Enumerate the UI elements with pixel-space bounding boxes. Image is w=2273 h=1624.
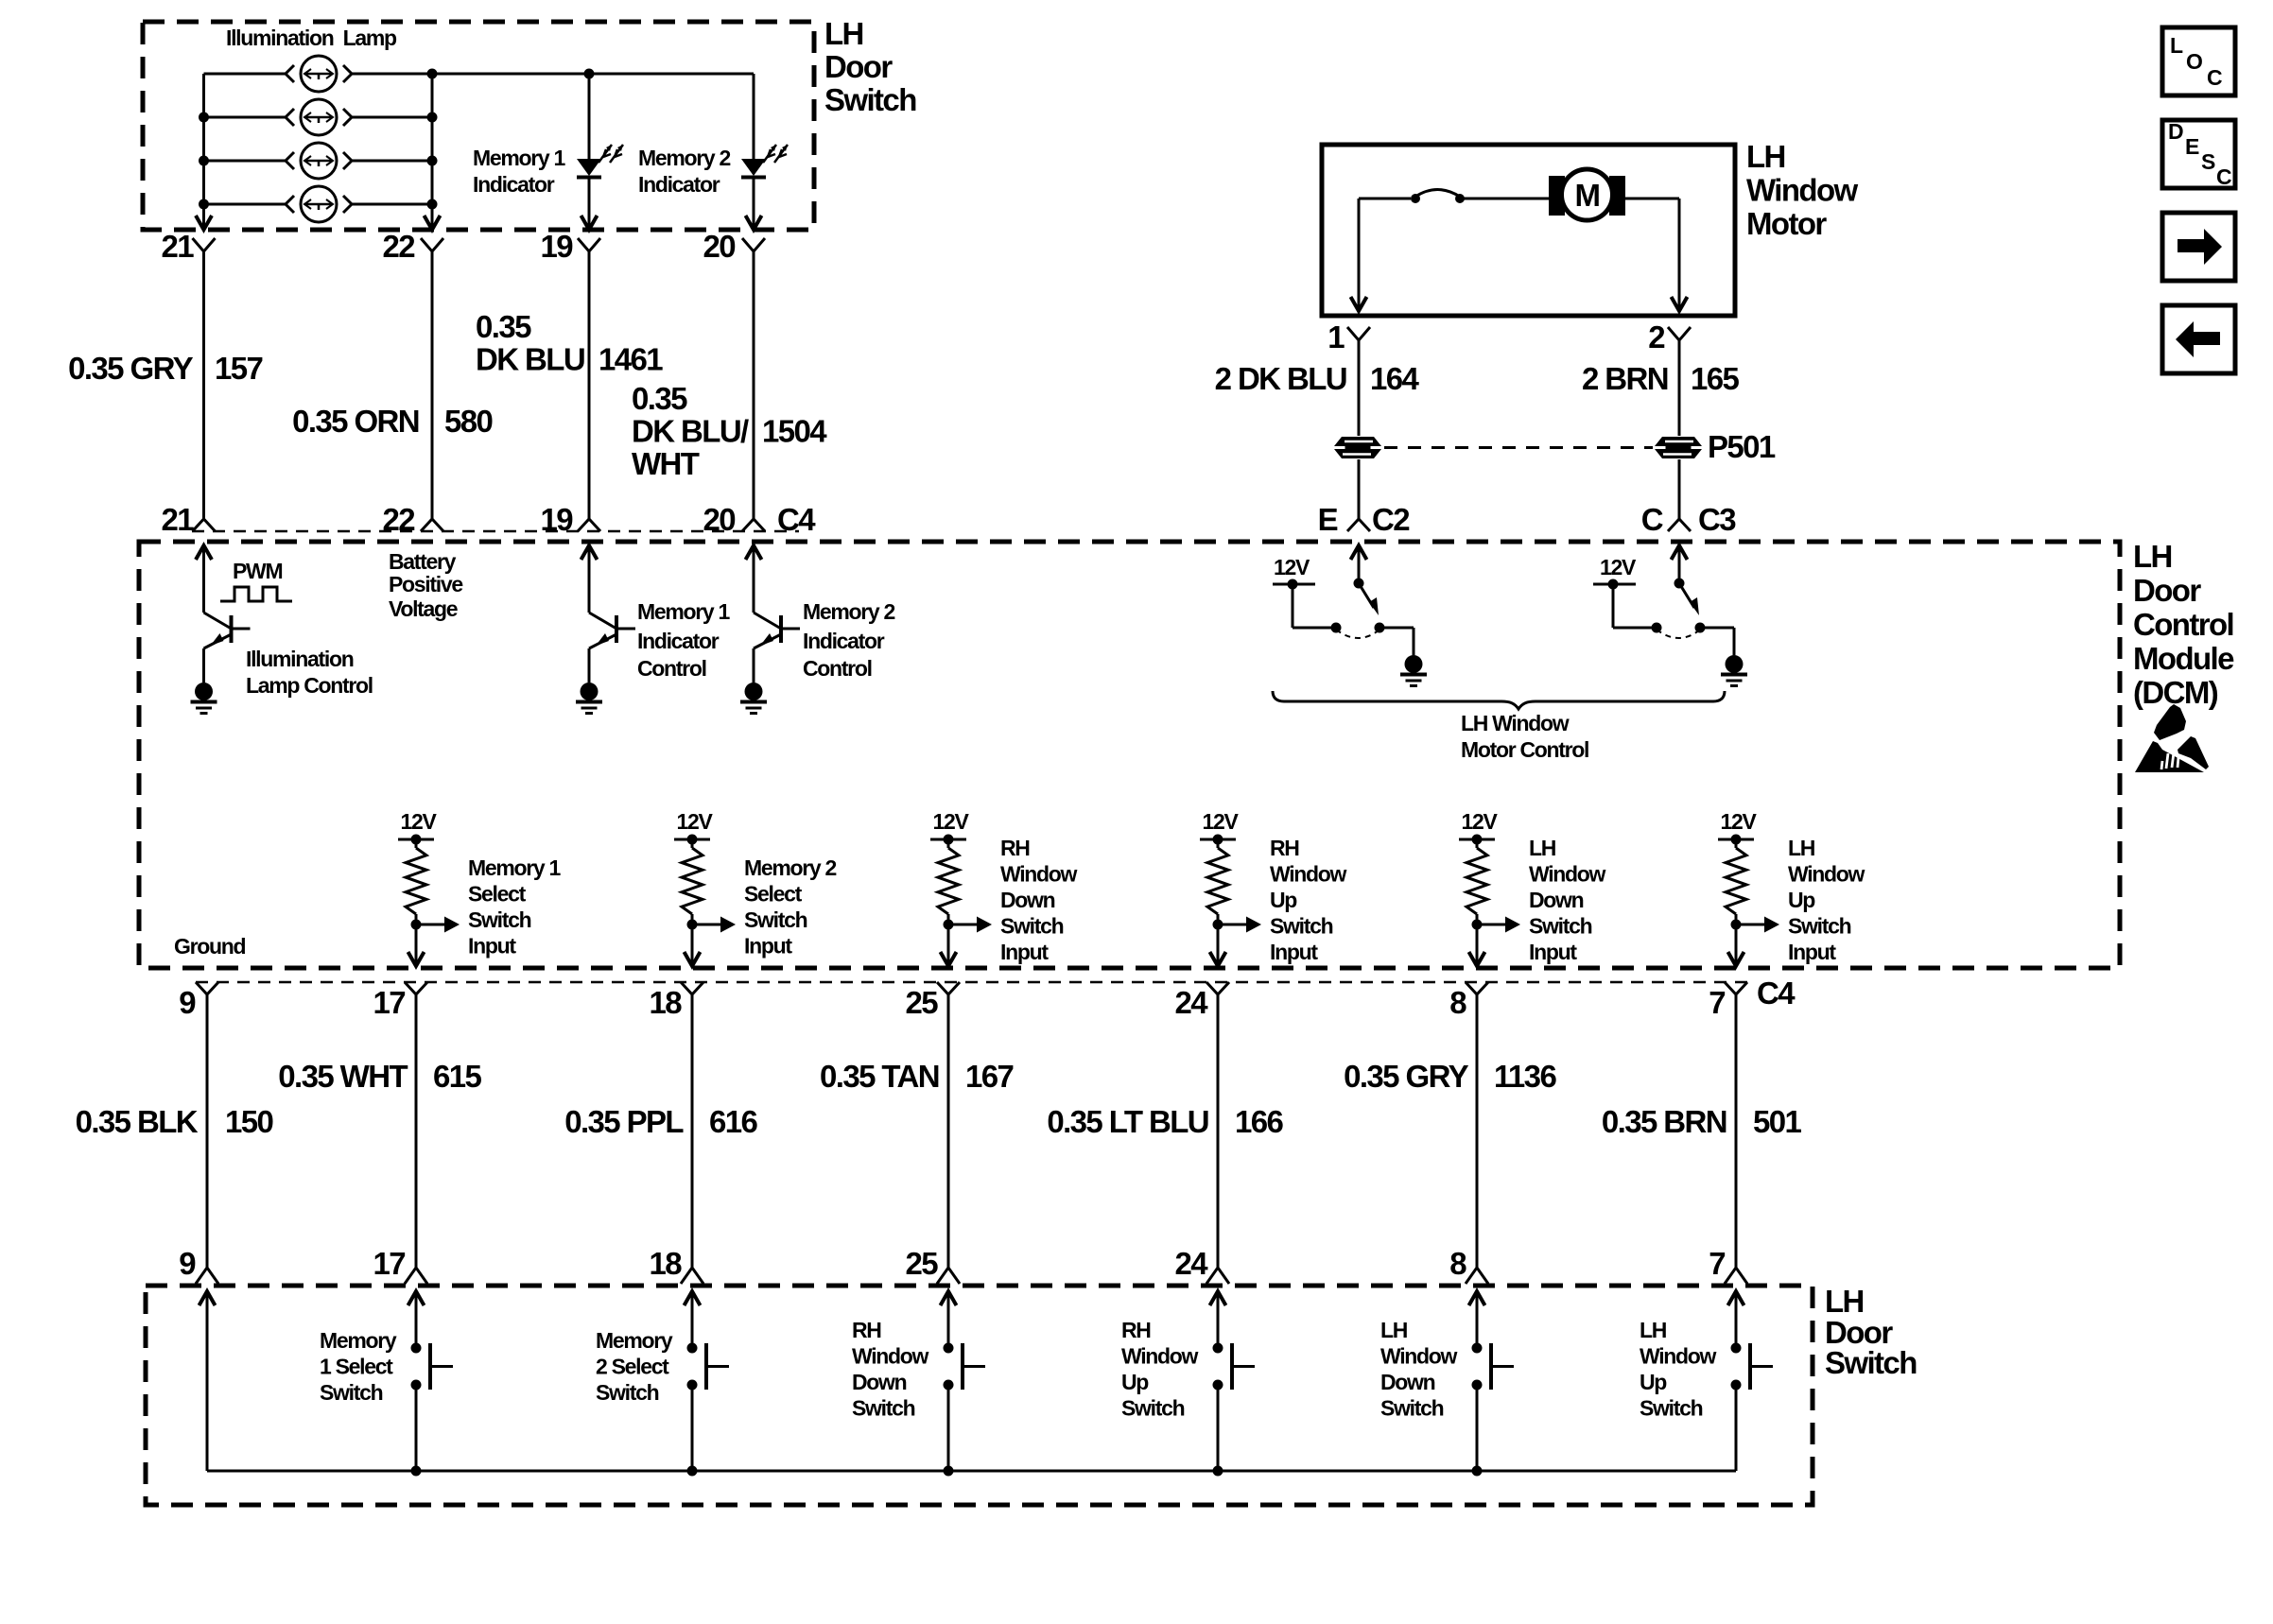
LH Window Motor Control label (1461, 711, 1588, 762)
svg-text:RH: RH (1121, 1318, 1151, 1342)
wire: circuit 167 (0.35 TAN) (947, 994, 950, 1268)
wire label 2 BRN 165 (1582, 361, 1740, 396)
svg-text:C2: C2 (1372, 502, 1410, 537)
svg-text:Positive: Positive (389, 572, 462, 596)
svg-text:7: 7 (1709, 1246, 1725, 1281)
svg-text:Switch: Switch (1380, 1396, 1444, 1421)
resistor: Memory 1 Select Switch Input pull-up (406, 839, 426, 924)
wire: LH Window Down Switch Input to pin (1469, 924, 1485, 966)
P501 label (1708, 429, 1776, 464)
resistor: LH Window Down Switch Input pull-up (1466, 839, 1487, 924)
svg-text:17: 17 (373, 985, 405, 1020)
Memory 2 Select Switch Input label (744, 855, 836, 959)
svg-text:0.35: 0.35 (476, 309, 531, 344)
wire label 0.35 ORN 580 (292, 404, 492, 439)
pin 22 (DCM C4) (382, 502, 443, 537)
svg-text:Window: Window (1788, 862, 1865, 887)
svg-text:12V: 12V (932, 809, 969, 834)
svg-text:Select: Select (744, 882, 803, 907)
svg-text:20: 20 (703, 502, 735, 537)
svg-text:165: 165 (1691, 361, 1740, 396)
Illumination Lamp Control label (246, 647, 373, 698)
svg-text:RH: RH (1270, 836, 1299, 860)
LH Door Switch (lower) enclosure box (146, 1286, 1813, 1505)
svg-text:C: C (2207, 65, 2222, 90)
svg-text:1504: 1504 (762, 414, 827, 449)
svg-text:Input: Input (1000, 940, 1049, 964)
wire: circuit 164 lower (1358, 459, 1361, 519)
forward arrow icon button (2162, 213, 2235, 281)
Memory 1 Select Switch label (320, 1328, 397, 1405)
pin 24 (DCM C4 bottom) (1174, 982, 1229, 1020)
svg-text:Switch: Switch (468, 907, 531, 932)
svg-text:Memory 2: Memory 2 (638, 146, 730, 170)
svg-text:Input: Input (1529, 940, 1577, 964)
wire: circuit 501 (0.35 BRN) (1735, 994, 1738, 1268)
svg-text:Memory: Memory (320, 1328, 397, 1353)
wire: circuit 165 lower (1678, 459, 1681, 519)
switch: RH Window Up Switch (momentary) (1210, 1291, 1256, 1471)
svg-text:Memory 1: Memory 1 (468, 855, 561, 880)
Memory 2 Indicator Control label (803, 599, 894, 681)
svg-text:12V: 12V (1600, 555, 1637, 579)
pin 17 (DCM C4 bottom) (373, 982, 427, 1020)
LH Door Switch (upper) enclosure box (143, 22, 814, 230)
svg-text:0.35: 0.35 (632, 381, 687, 416)
svg-text:Up: Up (1788, 888, 1815, 912)
wire: circuit 1504 (0.35 DK BLU/WHT) (753, 251, 755, 519)
svg-text:LH: LH (1825, 1284, 1864, 1319)
wire label 0.35 PPL 616 (564, 1104, 757, 1139)
wire: circuit 164 (2 DK BLU) upper (1358, 340, 1361, 436)
pin 7 (door switch lower) (1709, 1246, 1747, 1284)
svg-text:Down: Down (852, 1370, 907, 1394)
LH Door Control Module (DCM) enclosure box (139, 542, 2120, 968)
wire: LH Window Up Switch Input to pin (1728, 924, 1744, 966)
12V label (RH Window Down Switch Input) (932, 809, 969, 834)
pin 24 (door switch lower) (1174, 1246, 1229, 1284)
pin 2 (window motor) (1648, 320, 1691, 354)
svg-text:8: 8 (1449, 985, 1466, 1020)
LH Window Up Switch label (1640, 1318, 1717, 1421)
svg-text:Input: Input (744, 934, 792, 959)
svg-text:Window: Window (1121, 1344, 1199, 1369)
svg-text:(DCM): (DCM) (2133, 675, 2218, 710)
transistor Q1: Illumination Lamp Control driver (191, 545, 251, 714)
PWM label and waveform (220, 559, 292, 601)
wire: circuit 165 (2 BRN) upper (1678, 340, 1681, 436)
svg-text:9: 9 (179, 985, 196, 1020)
pin 9 (door switch lower) (179, 1246, 218, 1284)
svg-text:22: 22 (382, 229, 415, 264)
pin 18 (DCM C4 bottom) (649, 982, 703, 1020)
svg-text:12V: 12V (1274, 555, 1310, 579)
pin 19 (door switch) (540, 229, 600, 264)
pin 8 (door switch lower) (1449, 1246, 1488, 1284)
svg-text:Switch: Switch (1529, 914, 1592, 939)
wire: circuit 580 (0.35 ORN) (431, 251, 434, 519)
svg-text:Input: Input (468, 934, 516, 959)
svg-text:Motor Control: Motor Control (1461, 737, 1588, 762)
LED: Memory 1 Indicator (pin 19 column) (577, 74, 623, 230)
wire label 0.35 GRY 157 (68, 351, 262, 386)
svg-text:LH: LH (1746, 139, 1785, 174)
LH Door Switch (upper) box label (824, 16, 916, 117)
svg-text:S: S (2201, 149, 2215, 174)
svg-text:166: 166 (1235, 1104, 1284, 1139)
pin 25 (DCM C4 bottom) (905, 982, 960, 1020)
svg-text:2: 2 (1648, 320, 1665, 354)
svg-text:Switch: Switch (1121, 1396, 1185, 1421)
wire: lamp return rail (pin 22 column) (425, 74, 441, 230)
ESD sensitive device symbol (2135, 704, 2209, 772)
svg-text:Up: Up (1270, 888, 1297, 912)
svg-text:E: E (2185, 134, 2199, 159)
svg-text:DK BLU: DK BLU (476, 342, 584, 377)
12V label (C3 driver) (1600, 555, 1637, 579)
LH Door Switch (lower) box label (1825, 1284, 1917, 1380)
wire: ground return (pin 9) inside switch (200, 1291, 216, 1471)
RH Window Up Switch Input label (1270, 836, 1347, 964)
DESC icon button (2162, 119, 2235, 189)
node / sense tap (LH Window Up Switch Input) (1731, 917, 1780, 933)
svg-text:Illumination Lamp: Illumination Lamp (226, 26, 397, 50)
node / sense tap (RH Window Up Switch Input) (1213, 917, 1262, 933)
wire: breaker to motor (1464, 198, 1551, 200)
svg-text:0.35 LT BLU: 0.35 LT BLU (1047, 1104, 1208, 1139)
pin 22 (door switch) (382, 229, 443, 264)
svg-text:24: 24 (1174, 985, 1208, 1020)
resistor: RH Window Down Switch Input pull-up (938, 839, 959, 924)
svg-text:O: O (2186, 49, 2202, 74)
svg-text:Switch: Switch (320, 1380, 383, 1405)
12V label (Memory 2 Select Switch Input) (676, 809, 713, 834)
switch: Memory 2 Select Switch (momentary) (685, 1291, 730, 1471)
Ground label (174, 934, 245, 959)
svg-text:0.35 BLK: 0.35 BLK (76, 1104, 199, 1139)
pin 25 (door switch lower) (905, 1246, 960, 1284)
svg-text:Memory 2: Memory 2 (803, 599, 894, 624)
wire label 0.35 BLK 150 (76, 1104, 273, 1139)
connector C4 dashed pin line (bottom) (196, 981, 1747, 984)
svg-text:P501: P501 (1708, 429, 1776, 464)
LH Window Motor label (1746, 139, 1858, 241)
wire: circuit 616 (0.35 PPL) (691, 994, 694, 1268)
wire label 0.35 TAN 167 (820, 1059, 1013, 1094)
Memory 2 Select Switch label (596, 1328, 673, 1405)
svg-text:21: 21 (161, 502, 194, 537)
RH Window Down Switch Input label (1000, 836, 1078, 964)
wire: lamp 4 branch (204, 203, 433, 206)
svg-text:Indicator: Indicator (638, 172, 720, 197)
svg-text:L: L (2170, 33, 2183, 58)
Memory 2 Indicator label (638, 146, 730, 197)
LH Window Down Switch Input label (1529, 836, 1606, 964)
svg-text:M: M (1575, 178, 1600, 213)
svg-text:Ground: Ground (174, 934, 245, 959)
svg-text:Up: Up (1121, 1370, 1149, 1394)
wire: circuit 157 (0.35 GRY) (202, 251, 205, 519)
in-line connector P501 right half (1655, 437, 1702, 458)
switch: LH window motor driver (C3 side) (1593, 545, 1747, 686)
svg-text:Switch: Switch (744, 907, 807, 932)
wire: lamp 2 branch (204, 116, 433, 119)
svg-text:Window: Window (852, 1344, 929, 1369)
svg-text:0.35 GRY: 0.35 GRY (68, 351, 193, 386)
wire: RH Window Down Switch Input to pin (941, 924, 957, 966)
svg-text:Indicator: Indicator (637, 629, 720, 653)
wire: top feed to memory indicator LEDs (427, 69, 755, 79)
resistor: LH Window Up Switch Input pull-up (1726, 839, 1746, 924)
svg-text:Switch: Switch (1788, 914, 1851, 939)
svg-text:LH: LH (2133, 539, 2172, 574)
Illumination Lamp label (226, 26, 397, 50)
node / sense tap (RH Window Down Switch Input) (944, 917, 993, 933)
Memory 1 Indicator label (473, 146, 565, 197)
transistor Q3: Memory 2 Indicator Control driver (740, 545, 800, 714)
svg-text:150: 150 (225, 1104, 273, 1139)
svg-text:2 DK BLU: 2 DK BLU (1215, 361, 1346, 396)
svg-text:LH: LH (1380, 1318, 1408, 1342)
svg-text:D: D (2168, 119, 2183, 144)
svg-text:C3: C3 (1698, 502, 1736, 537)
svg-text:Illumination: Illumination (246, 647, 354, 671)
12V rail node (Memory 2 Select Switch Input) (674, 835, 710, 845)
svg-text:12V: 12V (1720, 809, 1757, 834)
wire label 0.35 WHT 615 (278, 1059, 481, 1094)
svg-text:Memory 2: Memory 2 (744, 855, 836, 880)
wire label 0.35 DK BLU/WHT 1504 (632, 381, 827, 481)
wire: Memory 2 Select Switch Input to pin (685, 924, 701, 966)
LH Window Up Switch Input label (1788, 836, 1865, 964)
wire: lamp 1 branch (204, 73, 433, 76)
svg-text:167: 167 (965, 1059, 1014, 1094)
svg-text:164: 164 (1370, 361, 1420, 396)
svg-text:9: 9 (179, 1246, 196, 1281)
wire: lamp feed rail (pin 21 column) (196, 74, 212, 230)
svg-text:1 Select: 1 Select (320, 1355, 393, 1379)
pin 17 (door switch lower) (373, 1246, 427, 1284)
switch: RH Window Down Switch (momentary) (941, 1291, 986, 1471)
P501 dashed tie line (1384, 446, 1653, 449)
12V label (LH Window Up Switch Input) (1720, 809, 1757, 834)
svg-text:LH: LH (1640, 1318, 1667, 1342)
wire: RH Window Up Switch Input to pin (1210, 924, 1226, 966)
svg-text:C: C (2216, 164, 2231, 189)
12V label (C2 driver) (1274, 555, 1310, 579)
svg-text:Input: Input (1270, 940, 1318, 964)
LOC icon button (2162, 27, 2235, 95)
svg-text:20: 20 (703, 229, 735, 264)
wire label 0.35 LT BLU 166 (1047, 1104, 1283, 1139)
brace: LH Window Motor Control (1273, 691, 1725, 709)
connector C4 label (bottom) (1757, 976, 1796, 1011)
svg-text:0.35 ORN: 0.35 ORN (292, 404, 419, 439)
svg-text:Window: Window (1529, 862, 1606, 887)
svg-text:615: 615 (433, 1059, 482, 1094)
svg-text:Motor: Motor (1746, 206, 1827, 241)
svg-text:1461: 1461 (599, 342, 663, 377)
node / sense tap (Memory 1 Select Switch Input) (411, 917, 460, 933)
svg-text:Down: Down (1000, 888, 1055, 912)
12V rail node (Memory 1 Select Switch Input) (398, 835, 434, 845)
svg-text:Lamp Control: Lamp Control (246, 673, 373, 698)
svg-text:0.35 GRY: 0.35 GRY (1344, 1059, 1468, 1094)
svg-text:Switch: Switch (596, 1380, 659, 1405)
illumination lamp 3 (286, 143, 352, 179)
pin 18 (door switch lower) (649, 1246, 703, 1284)
svg-text:0.35 BRN: 0.35 BRN (1602, 1104, 1726, 1139)
svg-text:Control: Control (803, 656, 872, 681)
pin 21 (DCM C4) (161, 502, 215, 537)
RH Window Up Switch label (1121, 1318, 1199, 1421)
svg-text:Module: Module (2133, 641, 2234, 676)
svg-text:RH: RH (1000, 836, 1030, 860)
svg-text:C4: C4 (777, 502, 816, 537)
svg-text:12V: 12V (1202, 809, 1239, 834)
svg-text:0.35 PPL: 0.35 PPL (564, 1104, 684, 1139)
LH Door Control Module (DCM) label (2133, 539, 2234, 710)
wire label 0.35 DK BLU 1461 (476, 309, 663, 377)
svg-text:Window: Window (1746, 173, 1858, 208)
12V rail node (RH Window Down Switch Input) (930, 835, 966, 845)
12V label (LH Window Down Switch Input) (1461, 809, 1498, 834)
wire: motor loop left leg (1351, 199, 1412, 311)
svg-text:0.35 TAN: 0.35 TAN (820, 1059, 939, 1094)
LED: Memory 2 Indicator (pin 20 column) (741, 74, 788, 230)
in-line connector P501 left half (1334, 437, 1381, 458)
transistor Q2: Memory 1 Indicator Control driver (576, 545, 635, 714)
svg-text:22: 22 (382, 502, 415, 537)
svg-text:Control: Control (637, 656, 706, 681)
wire label 2 DK BLU 164 (1215, 361, 1420, 396)
svg-text:Window: Window (1640, 1344, 1717, 1369)
illumination lamp 2 (286, 99, 352, 135)
svg-text:21: 21 (161, 229, 194, 264)
svg-text:Memory 1: Memory 1 (473, 146, 565, 170)
pin 1 (window motor) (1327, 320, 1370, 354)
switch: LH Window Up Switch (momentary) (1728, 1291, 1774, 1471)
svg-text:Control: Control (2133, 607, 2233, 642)
wire: circuit 1461 (0.35 DK BLU) (588, 251, 591, 519)
svg-text:12V: 12V (1461, 809, 1498, 834)
svg-text:Switch: Switch (1270, 914, 1333, 939)
wire: motor loop right leg (1622, 199, 1688, 311)
wire label 0.35 BRN 501 (1602, 1104, 1802, 1139)
12V label (RH Window Up Switch Input) (1202, 809, 1239, 834)
svg-text:18: 18 (649, 985, 682, 1020)
svg-text:8: 8 (1449, 1246, 1466, 1281)
12V rail node (LH Window Up Switch Input) (1718, 835, 1754, 845)
svg-text:17: 17 (373, 1246, 405, 1281)
svg-text:PWM: PWM (233, 559, 282, 583)
connector C4 label (top) (777, 502, 816, 537)
svg-text:12V: 12V (676, 809, 713, 834)
node / sense tap (Memory 2 Select Switch Input) (687, 917, 737, 933)
svg-text:Door: Door (824, 49, 893, 84)
12V label (Memory 1 Select Switch Input) (400, 809, 437, 834)
svg-text:18: 18 (649, 1246, 682, 1281)
svg-text:Down: Down (1529, 888, 1584, 912)
svg-text:19: 19 (540, 502, 573, 537)
pin 8 (DCM C4 bottom) (1449, 982, 1488, 1020)
illumination lamp 1 (286, 56, 352, 92)
12V rail node (RH Window Up Switch Input) (1200, 835, 1236, 845)
back arrow icon button (2162, 305, 2235, 373)
LH Window Motor enclosure box (1322, 145, 1735, 316)
svg-text:24: 24 (1174, 1246, 1208, 1281)
Memory 1 Indicator Control label (637, 599, 730, 681)
pin 20 (DCM C4) (703, 502, 765, 537)
svg-text:Up: Up (1640, 1370, 1667, 1394)
svg-text:Switch: Switch (1000, 914, 1064, 939)
pin C (DCM C3) (1641, 502, 1736, 537)
svg-text:Memory 1: Memory 1 (637, 599, 730, 624)
svg-text:Switch: Switch (824, 82, 916, 117)
svg-text:Battery: Battery (389, 549, 457, 574)
svg-text:1136: 1136 (1494, 1059, 1556, 1094)
wire: Memory 1 Select Switch Input to pin (408, 924, 425, 966)
svg-text:Switch: Switch (1640, 1396, 1703, 1421)
svg-text:Down: Down (1380, 1370, 1435, 1394)
svg-text:Input: Input (1788, 940, 1836, 964)
pin 21 (door switch) (161, 229, 215, 264)
wire: circuit 166 (0.35 LT BLU) (1217, 994, 1220, 1268)
svg-text:Window: Window (1000, 862, 1078, 887)
resistor: RH Window Up Switch Input pull-up (1207, 839, 1228, 924)
wire: circuit 1136 (0.35 GRY) (1476, 994, 1479, 1268)
svg-text:DK BLU/: DK BLU/ (632, 414, 749, 449)
svg-text:Memory: Memory (596, 1328, 673, 1353)
svg-text:580: 580 (444, 404, 493, 439)
switch: LH Window Down Switch (momentary) (1469, 1291, 1515, 1471)
illumination lamp 4 (286, 186, 352, 222)
Battery Positive Voltage label (389, 549, 462, 621)
12V rail node (LH Window Down Switch Input) (1459, 835, 1495, 845)
pin 7 (DCM C4 bottom) (1709, 982, 1747, 1020)
svg-text:2 Select: 2 Select (596, 1355, 669, 1379)
motor M1: LH window motor (1549, 169, 1625, 220)
pin 20 (door switch) (703, 229, 765, 264)
svg-text:12V: 12V (400, 809, 437, 834)
svg-text:2 BRN: 2 BRN (1582, 361, 1668, 396)
svg-text:LH Window: LH Window (1461, 711, 1570, 735)
svg-text:616: 616 (709, 1104, 758, 1139)
circuit breaker (motor thermal protector) (1411, 190, 1465, 204)
switch: LH window motor driver (C2 side) (1273, 545, 1427, 686)
Memory 1 Select Switch Input label (468, 855, 561, 959)
resistor: Memory 2 Select Switch Input pull-up (682, 839, 703, 924)
node / sense tap (LH Window Down Switch Input) (1472, 917, 1521, 933)
svg-text:501: 501 (1753, 1104, 1802, 1139)
wire: circuit 150 (0.35 BLK) (206, 994, 209, 1268)
svg-text:Window: Window (1380, 1344, 1458, 1369)
pin E (DCM C2) (1318, 502, 1411, 537)
wire label 0.35 GRY 1136 (1344, 1059, 1556, 1094)
svg-text:Indicator: Indicator (803, 629, 885, 653)
svg-text:Select: Select (468, 882, 527, 907)
wire: circuit 615 (0.35 WHT) (415, 994, 418, 1268)
svg-text:E: E (1318, 502, 1338, 537)
pin 9 (DCM C4 bottom) (179, 982, 218, 1020)
svg-text:RH: RH (852, 1318, 881, 1342)
svg-text:Switch: Switch (852, 1396, 915, 1421)
LH Window Down Switch label (1380, 1318, 1458, 1421)
svg-text:LH: LH (1529, 836, 1556, 860)
svg-text:157: 157 (215, 351, 263, 386)
RH Window Down Switch label (852, 1318, 929, 1421)
connector C4 dashed pin line (top) (192, 530, 799, 533)
